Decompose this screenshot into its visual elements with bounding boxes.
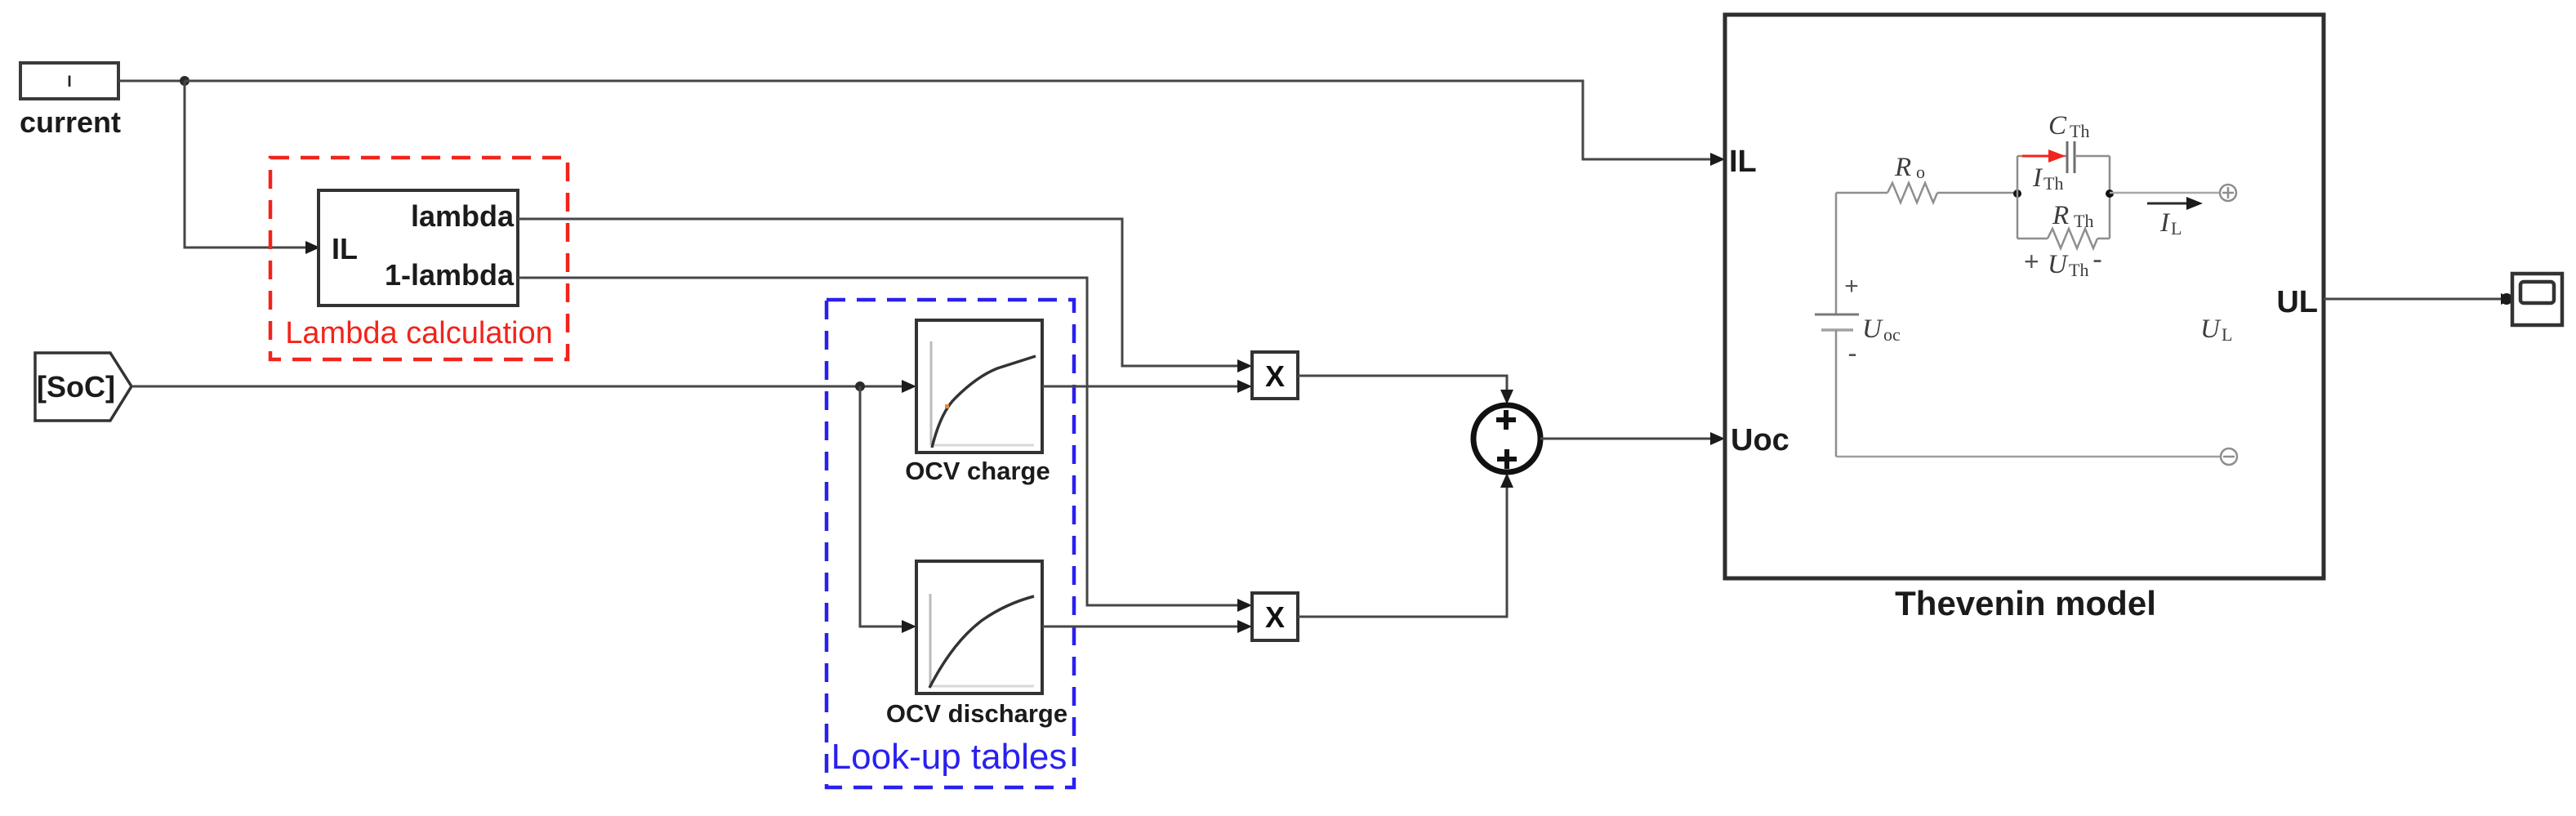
battery cell Uoc plates (1815, 314, 1859, 330)
svg-text:-: - (2092, 242, 2102, 275)
blue dashed box Look-up tables (827, 300, 1074, 787)
label RTh (2052, 201, 2093, 231)
label Uoc (source voltage) (1862, 314, 1901, 345)
positive terminal circle-plus (2220, 185, 2236, 201)
svg-text:Th: Th (2069, 260, 2088, 280)
circuit: left vertical wire upper segment (1835, 193, 1838, 314)
wire node B to positive terminal (2110, 192, 2220, 194)
lookup table block OCV discharge (916, 561, 1042, 693)
sum block (1473, 405, 1540, 472)
svg-text:I: I (2032, 163, 2043, 193)
wire lambda output to product X1 top input (518, 219, 1252, 372)
svg-text:IL: IL (1729, 145, 1757, 179)
svg-text:L: L (2222, 324, 2232, 345)
wire SoC junction down to OCV discharge input (860, 386, 916, 633)
subsystem block Thevenin model (1725, 15, 2324, 578)
svg-text:Th: Th (2070, 121, 2089, 141)
circuit: top wire to resistor Ro (1836, 192, 1887, 194)
capacitor branch right wire (2075, 155, 2110, 158)
resistor RTh branch left wire (2017, 238, 2048, 240)
svg-text:R: R (2052, 201, 2069, 230)
lookup table block OCV charge (916, 320, 1042, 453)
product block X1 (1252, 352, 1298, 399)
svg-text:current: current (20, 105, 121, 139)
wire OCV discharge output to product X2 bottom input (1042, 620, 1252, 633)
load current arrow IL (2147, 197, 2203, 210)
capacitor branch left wire (2017, 155, 2067, 158)
svg-text:oc: oc (1883, 324, 1901, 345)
resistor Ro (1887, 183, 1937, 203)
svg-text:+: + (1844, 273, 1859, 300)
svg-text:o: o (1916, 162, 1925, 182)
wire current block to top junction (118, 80, 184, 82)
svg-text:Thevenin model: Thevenin model (1895, 584, 2156, 622)
svg-text:+: + (2024, 247, 2039, 276)
red dashed box Lambda calculation (270, 158, 568, 359)
svg-text:Look-up tables: Look-up tables (831, 737, 1067, 777)
node A dot (2013, 190, 2021, 198)
subsystem block lambda calculation (319, 190, 518, 305)
svg-text:Th: Th (2043, 173, 2063, 194)
resistor RTh (2048, 229, 2097, 248)
svg-text:I: I (67, 74, 71, 91)
circuit: wire resistor Ro to node A (1937, 192, 2017, 194)
svg-text:C: C (2048, 111, 2067, 140)
svg-text:IL: IL (332, 232, 358, 265)
label Ro (1894, 153, 1925, 182)
junction dot on SoC wire (855, 381, 865, 391)
label UL (terminal voltage) (2200, 314, 2232, 345)
resistor RTh branch right wire (2097, 238, 2110, 240)
circuit: left vertical wire lower segment (1835, 330, 1838, 457)
label IL (load current) (2159, 208, 2182, 239)
wire X2 output to sum bottom input (1298, 473, 1513, 617)
svg-text:I: I (2159, 208, 2171, 238)
wire UL output to scope (2324, 293, 2513, 305)
wire 1-lambda output to product X2 top input (518, 278, 1252, 612)
svg-text:X: X (1265, 359, 1285, 393)
node B dot (2106, 190, 2114, 198)
wire junction down to lambda subsystem IL input (185, 81, 320, 254)
from tag SoC (35, 353, 131, 421)
svg-text:L: L (2171, 218, 2182, 239)
svg-text:UL: UL (2276, 285, 2318, 319)
wire top run from junction to IL port of Thevenin model (185, 81, 1725, 166)
svg-text:Th: Th (2074, 211, 2093, 231)
wire SoC to OCV charge input (131, 380, 916, 393)
wire OCV charge output to product X1 bottom input (1042, 380, 1252, 393)
svg-text:1-lambda: 1-lambda (385, 258, 515, 292)
svg-text:lambda: lambda (411, 199, 515, 233)
label ITh (2032, 163, 2063, 194)
svg-text:U: U (1862, 314, 1883, 344)
label + UTh - (2024, 242, 2102, 280)
svg-text:Uoc: Uoc (1731, 423, 1789, 457)
svg-text:X: X (1265, 600, 1285, 634)
source block I (current) (20, 63, 118, 99)
wire X1 output to sum top input (1298, 376, 1513, 404)
scope block (2512, 274, 2562, 325)
product block X2 (1252, 593, 1298, 640)
negative terminal circle-minus (2221, 448, 2237, 465)
circuit bottom return wire (1836, 456, 2221, 458)
svg-text:Lambda calculation: Lambda calculation (285, 316, 552, 350)
capacitor CTh plates (2067, 141, 2075, 173)
wire sum output to Uoc port of Thevenin model (1540, 432, 1725, 445)
parallel branch right vertical wire (2109, 156, 2111, 239)
svg-text:OCV charge: OCV charge (905, 457, 1050, 485)
svg-text:U: U (2048, 250, 2069, 279)
svg-text:[SoC]: [SoC] (37, 370, 115, 404)
label CTh (2048, 111, 2089, 141)
parallel branch left vertical wire (2017, 156, 2019, 239)
svg-text:-: - (1847, 338, 1856, 369)
svg-text:OCV discharge: OCV discharge (886, 699, 1067, 728)
red current arrow ITh (2022, 149, 2066, 163)
svg-text:U: U (2200, 314, 2222, 344)
svg-text:R: R (1894, 153, 1911, 182)
junction node dot (180, 76, 189, 86)
